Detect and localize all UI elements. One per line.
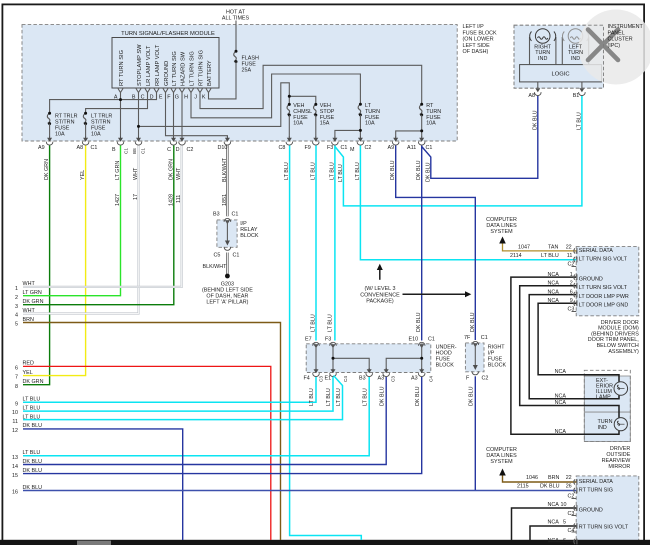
svg-text:E7: E7 [305, 336, 312, 342]
svg-text:14: 14 [12, 464, 18, 470]
svg-text:LT BLU: LT BLU [23, 405, 41, 411]
wire BRN 1046 serial data [503, 476, 577, 483]
svg-text:DK BLU: DK BLU [23, 485, 43, 491]
svg-text:C1: C1 [232, 212, 239, 218]
IPC stub wires [538, 82, 582, 88]
LT TRLR fuse [83, 113, 86, 123]
svg-text:LT BLU: LT BLU [328, 314, 334, 332]
underhood bottom connector A3 C3 [383, 368, 390, 377]
bottom module pin brackets [574, 479, 577, 544]
LT TURN fuse output branch [335, 115, 361, 137]
svg-text:RED: RED [23, 361, 34, 367]
svg-text:C1: C1 [341, 145, 348, 151]
svg-text:(IPC): (IPC) [608, 43, 621, 49]
wire A pin down to connector [120, 93, 122, 138]
frame top [2, 4, 646, 6]
wire E pin to D10 connector [166, 93, 228, 138]
module pin brackets [118, 89, 211, 93]
connector A8 C1 (LT TRLR out) [82, 137, 89, 146]
svg-text:12: 12 [12, 428, 18, 434]
svg-text:13: 13 [12, 455, 18, 461]
svg-text:A9: A9 [38, 145, 45, 151]
svg-text:SYSTEM: SYSTEM [490, 459, 513, 465]
svg-text:LT BLU: LT BLU [23, 414, 41, 420]
right turn ind bulb [530, 29, 556, 44]
svg-text:1047: 1047 [518, 245, 530, 251]
svg-text:C1: C1 [141, 148, 146, 154]
wire LT BLU F9 to E7 underhood [315, 146, 317, 341]
svg-text:GROUND: GROUND [164, 61, 170, 86]
svg-text:D10: D10 [218, 145, 228, 151]
svg-text:B1: B1 [573, 93, 580, 99]
svg-text:PACKAGE): PACKAGE) [366, 299, 394, 305]
svg-text:H: H [184, 95, 188, 101]
wire TAN 1047 serial data [503, 244, 577, 251]
wire B branch to VEH fuses [139, 83, 290, 127]
svg-text:NCA: NCA [555, 369, 567, 375]
svg-text:2115: 2115 [517, 483, 529, 489]
svg-text:1046: 1046 [526, 475, 538, 481]
svg-text:LT BLU: LT BLU [329, 162, 335, 180]
svg-text:NCA: NCA [555, 400, 567, 406]
hot at all times feed wire [235, 21, 237, 51]
svg-text:NCA: NCA [548, 298, 560, 304]
svg-text:C1: C1 [91, 145, 98, 151]
svg-text:C3: C3 [391, 376, 396, 382]
svg-text:10: 10 [561, 502, 567, 508]
svg-text:10A: 10A [55, 132, 65, 138]
connector F9 [313, 137, 320, 146]
level 3 arrow up [379, 269, 381, 280]
wire flash fuse to K pin [209, 62, 237, 99]
svg-text:16: 16 [12, 490, 18, 496]
svg-text:LT BLU: LT BLU [338, 164, 344, 182]
svg-text:C1: C1 [481, 335, 488, 341]
svg-text:NCA: NCA [548, 281, 560, 287]
svg-text:8: 8 [15, 384, 18, 390]
svg-text:DK BLU: DK BLU [425, 162, 431, 182]
svg-text:C2: C2 [365, 145, 372, 151]
svg-text:MIRROR: MIRROR [608, 464, 630, 470]
wire DK BLU stub 12 down [23, 429, 183, 540]
instrument panel cluster box [514, 25, 604, 88]
svg-text:C: C [167, 147, 171, 153]
svg-text:C2: C2 [187, 147, 194, 153]
left stubs [12, 286, 18, 496]
svg-text:F4: F4 [304, 376, 310, 382]
ground G203 [225, 274, 230, 279]
level 3 arrow right [403, 293, 466, 295]
wire C pin to LT TRLR fuse [86, 93, 148, 114]
module pin letters [114, 95, 206, 101]
NCA wire bottom module last [548, 541, 576, 543]
svg-text:10A: 10A [293, 121, 303, 127]
svg-text:LEFT SIDE: LEFT SIDE [463, 43, 491, 49]
svg-text:CONVENIENCE: CONVENIENCE [360, 292, 400, 298]
wire WHT 17 to stub 4 [23, 146, 139, 314]
svg-text:NCA: NCA [548, 290, 560, 296]
svg-text:STOPLAMP SW: STOPLAMP SW [137, 44, 143, 86]
svg-text:BLOCK: BLOCK [240, 233, 259, 239]
svg-text:GROUND: GROUND [579, 277, 603, 283]
svg-text:DK BLU: DK BLU [470, 312, 476, 332]
svg-text:M: M [350, 147, 355, 153]
svg-text:LT BLU: LT BLU [23, 450, 41, 456]
svg-text:1: 1 [570, 272, 573, 278]
svg-text:2: 2 [570, 281, 573, 287]
underhood bottom connector A3 C4 [418, 368, 425, 377]
turn signal flasher module box [112, 38, 219, 89]
wire F pin to C connector [173, 93, 175, 138]
connector B C1 (pin A out) [117, 137, 124, 146]
svg-text:15: 15 [12, 473, 18, 479]
svg-text:LT TURN SIG VOLT: LT TURN SIG VOLT [579, 285, 628, 291]
wire B pin down to connector [138, 93, 140, 138]
svg-text:LT TURN SIG: LT TURN SIG [190, 51, 196, 86]
underhood top connector E10 C1 [418, 342, 425, 348]
frame left [2, 4, 4, 541]
NCA wire DOM pin1 to turn ind bottom [511, 277, 619, 434]
svg-text:DK BLU: DK BLU [540, 483, 560, 489]
svg-text:1427: 1427 [115, 194, 121, 206]
svg-text:LEFT I/P: LEFT I/P [463, 24, 485, 30]
VEH STOP fuse [314, 104, 317, 114]
exterior illum lamp bulb [614, 382, 628, 396]
svg-text:1428: 1428 [168, 194, 174, 206]
svg-text:4: 4 [15, 313, 18, 319]
svg-text:ASSEMBLY): ASSEMBLY) [608, 349, 639, 355]
wire RED stub 6 [23, 366, 271, 540]
module pin labels (rotated) [119, 44, 213, 86]
under-hood fuse block box [306, 344, 431, 373]
mirror turn sub-box [584, 412, 630, 442]
right turn ind bulb legs [530, 37, 556, 65]
svg-text:RT TURN SIG: RT TURN SIG [199, 50, 205, 86]
svg-text:ALL TIMES: ALL TIMES [222, 16, 250, 22]
svg-text:CLUSTER: CLUSTER [608, 37, 633, 43]
RT TURN fuse [419, 104, 422, 114]
svg-text:26: 26 [566, 483, 572, 489]
svg-text:WHT: WHT [176, 167, 182, 180]
wire DK BLU 2115 stub 16 to RT TURN SIG [23, 490, 576, 492]
svg-text:BATTERY: BATTERY [207, 60, 213, 86]
wire LT BLU C8 long down [290, 146, 362, 541]
wire LT BLU B3 to stub 13 [23, 377, 369, 456]
svg-text:A8: A8 [528, 93, 535, 99]
LOGIC box [520, 65, 602, 82]
svg-text:LT BLU: LT BLU [362, 388, 368, 406]
VEH CHMSL fuse [287, 104, 290, 114]
wire DK GRN A9 to stub 8 [23, 146, 50, 385]
mirror lamp sub-box [584, 376, 630, 412]
underhood bottom connector B3 [366, 368, 373, 377]
underhood internal branch to A3 [386, 358, 422, 372]
underhood top connector F3 [330, 342, 337, 348]
connector row labels under left IP [38, 145, 432, 153]
svg-text:RT TURN SIG: RT TURN SIG [119, 50, 125, 86]
svg-text:111: 111 [176, 195, 182, 203]
svg-text:5: 5 [563, 520, 566, 526]
wire DK BLU A3R to stub 15 [23, 377, 422, 474]
svg-text:D: D [176, 147, 180, 153]
svg-text:E1: E1 [325, 376, 332, 382]
svg-text:DK GRN: DK GRN [44, 159, 50, 180]
svg-text:PANEL: PANEL [608, 30, 625, 36]
svg-text:F3: F3 [327, 145, 333, 151]
svg-text:(W/ LEVEL 3: (W/ LEVEL 3 [365, 286, 396, 292]
svg-text:DK BLU: DK BLU [390, 160, 396, 180]
wire LT BLU F3 diagonal to B1 IPC [335, 96, 582, 206]
svg-text:DK GRN: DK GRN [23, 379, 44, 385]
bottom right module box [576, 476, 639, 545]
left IP fuse block box [22, 25, 457, 141]
svg-text:6: 6 [570, 290, 573, 296]
svg-text:22: 22 [566, 245, 572, 251]
svg-text:10: 10 [12, 410, 18, 416]
svg-text:(ON LOWER: (ON LOWER [463, 37, 494, 43]
svg-text:2: 2 [15, 295, 18, 301]
svg-text:E: E [159, 95, 163, 101]
svg-text:15A: 15A [320, 121, 330, 127]
svg-text:NCA: NCA [548, 272, 560, 278]
connector C8 [286, 137, 293, 146]
svg-text:LT BLU: LT BLU [309, 388, 315, 406]
svg-text:NCA: NCA [555, 429, 567, 435]
svg-text:B3: B3 [213, 212, 220, 218]
svg-text:TURN SIGNAL/FLASHER MODULE: TURN SIGNAL/FLASHER MODULE [121, 31, 215, 37]
svg-text:BLK/WHT: BLK/WHT [222, 157, 228, 182]
svg-text:LEFT 'A' PILLAR): LEFT 'A' PILLAR) [206, 299, 248, 305]
connector D10 (ground out) [224, 137, 231, 146]
svg-text:BRN: BRN [23, 317, 34, 323]
svg-text:K: K [202, 95, 206, 101]
wire LT BLU M to 2114 serial [360, 146, 576, 260]
svg-text:C2: C2 [482, 376, 489, 382]
connector B3 C1 relay top [224, 218, 231, 224]
svg-text:RT TURN SIG VOLT: RT TURN SIG VOLT [579, 525, 629, 531]
svg-text:6: 6 [563, 538, 566, 544]
svg-text:C1: C1 [124, 148, 129, 154]
wire A/D to RT TRLR fuse [50, 93, 157, 114]
svg-text:LT BLU: LT BLU [326, 388, 332, 406]
svg-text:A9: A9 [388, 145, 395, 151]
wire DK GRN 1428 C to stub 3 [23, 146, 174, 305]
svg-text:OF DASH): OF DASH) [463, 49, 489, 55]
svg-text:IND: IND [538, 56, 547, 62]
svg-text:NCA: NCA [548, 538, 560, 544]
connector D C2 (pin G out) [179, 137, 186, 146]
computer data lines arrow bottom [499, 469, 506, 476]
svg-text:C1: C1 [233, 252, 240, 258]
underhood internal F3-E1 [332, 345, 334, 373]
wire G pin to D connector [181, 93, 183, 138]
wire DK BLU A11 diagonal to A8 IPC [422, 96, 538, 179]
svg-text:LT BLU: LT BLU [576, 112, 582, 130]
svg-text:DK BLU: DK BLU [23, 459, 43, 465]
svg-text:RR LAMP VOLT: RR LAMP VOLT [155, 44, 161, 86]
driver outside rearview mirror box [584, 370, 630, 441]
svg-text:DK BLU: DK BLU [415, 386, 421, 406]
RT TRLR fuse [47, 113, 50, 123]
wire DK BLU A3 to stub 14 [23, 377, 386, 465]
svg-text:3: 3 [15, 304, 18, 310]
svg-text:A8: A8 [77, 145, 84, 151]
NCA wire DOM pin2 to turn ind top [520, 286, 619, 418]
svg-text:A3: A3 [411, 376, 418, 382]
computer data lines arrow top [499, 237, 506, 244]
connector M C2 [357, 137, 364, 146]
svg-text:LT BLU: LT BLU [311, 162, 317, 180]
svg-text:WHT: WHT [23, 281, 36, 287]
svg-text:BLOCK: BLOCK [436, 363, 455, 369]
svg-text:LT BLU: LT BLU [23, 397, 41, 403]
DOM pin brackets [574, 248, 577, 306]
svg-text:A3: A3 [378, 376, 385, 382]
turn ind mirror bulb [614, 418, 627, 431]
NCA wire DOM pin6 to lamp bottom [529, 295, 619, 399]
svg-text:DK BLU: DK BLU [469, 386, 475, 406]
svg-text:11: 11 [12, 419, 18, 425]
svg-text:DK BLU: DK BLU [532, 110, 538, 130]
watermark X [588, 30, 618, 61]
wire LT BLU F4 to stub 9 [23, 377, 316, 402]
svg-text:C3: C3 [319, 376, 324, 382]
wire LT GRN B to stub 2 [23, 146, 121, 296]
svg-text:DK BLU: DK BLU [23, 423, 43, 429]
svg-text:J: J [194, 95, 197, 101]
svg-text:E10: E10 [409, 336, 419, 342]
svg-text:DK BLU: DK BLU [416, 312, 422, 332]
svg-text:7: 7 [15, 375, 18, 381]
C2/C3/C4 edge ticks on modules [572, 267, 577, 533]
wire LT BLU E1 diagonal to stub 11 [23, 376, 343, 420]
rotated labels below underhood [309, 386, 474, 406]
svg-text:FUSE BLOCK: FUSE BLOCK [463, 30, 498, 36]
watermark circle [579, 10, 650, 85]
svg-text:SERIAL DATA: SERIAL DATA [579, 248, 613, 254]
connector C5 C1 relay bottom [224, 247, 231, 250]
svg-text:DK BLU: DK BLU [23, 468, 43, 474]
svg-text:NCA: NCA [548, 502, 560, 508]
svg-text:SYSTEM: SYSTEM [490, 229, 513, 235]
svg-text:DK GRN: DK GRN [23, 299, 44, 305]
rotated labels DK BLU / LT BLU under IPC [532, 110, 582, 130]
wire BLK/WHT to G203 [226, 253, 228, 276]
svg-text:G: G [175, 95, 179, 101]
svg-text:LT TURN SIG: LT TURN SIG [172, 51, 178, 86]
driver door module box [576, 247, 639, 316]
right IP bottom connector F C2 [472, 371, 479, 374]
tiny rotated connector labels [124, 148, 146, 154]
svg-text:17: 17 [133, 194, 139, 200]
svg-text:LT BLU: LT BLU [541, 253, 559, 259]
svg-text:2114: 2114 [510, 253, 522, 259]
svg-text:LOGIC: LOGIC [551, 72, 569, 78]
wire DK BLU A11 to E10 underhood [421, 146, 423, 341]
flash fuse 25A [234, 51, 237, 61]
RT TURN fuse output branch [396, 115, 422, 137]
svg-text:IND: IND [598, 425, 607, 431]
svg-text:SERIAL DATA: SERIAL DATA [579, 479, 613, 485]
connector F3 C1 [332, 137, 339, 146]
svg-text:10A: 10A [426, 121, 436, 127]
svg-text:1: 1 [15, 286, 18, 292]
underhood top connector E7 [313, 342, 320, 348]
wire LT BLU E1 to stub 10 [23, 377, 333, 411]
wire YEL A8 to stub 7 [23, 146, 86, 376]
svg-text:LT TURN SIG VOLT: LT TURN SIG VOLT [579, 257, 628, 263]
svg-text:BRN: BRN [548, 475, 559, 481]
wire BLK/WHT 1851 to relay block [226, 146, 228, 217]
svg-text:9: 9 [570, 298, 573, 304]
svg-text:HAZARD SW: HAZARD SW [181, 51, 187, 86]
wire LT BLU F3 to F3 underhood [334, 146, 336, 341]
I/P relay block box [217, 220, 237, 247]
svg-text:1851: 1851 [222, 194, 228, 206]
svg-text:WHT: WHT [133, 167, 139, 180]
underhood internal E10-A3R [421, 345, 423, 373]
svg-text:RT TURN SIG: RT TURN SIG [579, 488, 613, 494]
LT TURN fuse [358, 104, 361, 114]
svg-text:C1: C1 [426, 145, 433, 151]
underhood bottom connector F4 [313, 368, 320, 377]
left turn ind bulb legs [562, 37, 588, 65]
right IP fuse block box [465, 343, 484, 372]
svg-text:A11: A11 [407, 145, 416, 151]
underhood bottom connector E1 C4 [330, 368, 337, 377]
svg-text:10A: 10A [91, 132, 101, 138]
svg-text:9: 9 [15, 401, 18, 407]
svg-text:C3: C3 [568, 511, 575, 517]
svg-text:10A: 10A [365, 121, 375, 127]
svg-text:22: 22 [566, 475, 572, 481]
IPC connector A8 [535, 87, 542, 96]
wire DK BLU F right IP down to 2115 [474, 376, 476, 490]
wire branch to VEH STOP fuse [289, 96, 316, 104]
NCA wire bottom module rt turn sig volt [530, 526, 576, 540]
svg-text:LT DOOR LMP PWR: LT DOOR LMP PWR [579, 294, 629, 300]
IPC dashed border redraw [514, 25, 604, 88]
svg-text:LT BLU: LT BLU [336, 388, 342, 406]
svg-text:B: B [112, 147, 116, 153]
svg-text:LT BLU: LT BLU [355, 162, 361, 180]
relay internal wire with arrow [226, 221, 228, 242]
svg-text:C2: C2 [568, 494, 575, 500]
svg-text:C8: C8 [279, 145, 286, 151]
svg-text:WHT: WHT [23, 308, 36, 314]
svg-text:7F: 7F [464, 335, 471, 341]
connector C C2 (pin F out) [170, 137, 177, 146]
svg-text:LT DOOR LMP GND: LT DOOR LMP GND [579, 303, 629, 309]
IPC connector B1 [579, 87, 586, 96]
connector A9 (RT TRLR out) [46, 137, 53, 146]
underhood internal branch to B3 [333, 358, 369, 372]
frame right [643, 4, 645, 541]
connector A11 C1 [418, 137, 425, 146]
rotated wire color labels under left IP [44, 157, 431, 182]
bottom black bar [0, 540, 650, 545]
wire DK BLU A9 to 7F right IP [396, 146, 476, 341]
svg-text:LAMP: LAMP [596, 395, 611, 401]
NCA wire bottom module ground [512, 508, 577, 540]
svg-text:F9: F9 [305, 145, 311, 151]
svg-text:YEL: YEL [23, 370, 33, 376]
wire BRN stub 5 [23, 323, 281, 541]
rotated labels above underhood [311, 312, 476, 332]
svg-text:C5: C5 [214, 252, 221, 258]
svg-text:BLK/WHT: BLK/WHT [203, 264, 228, 270]
wire H pin to LT TURN fuse (bus) [191, 74, 360, 118]
